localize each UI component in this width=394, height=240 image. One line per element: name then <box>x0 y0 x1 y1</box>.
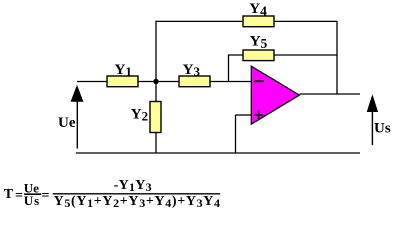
svg-text:Us: Us <box>24 193 40 208</box>
formula fraction bar Ue/Us <box>24 193 41 195</box>
formula main fraction bar <box>53 193 221 195</box>
svg-text:Y2: Y2 <box>131 107 148 124</box>
wire: output horizontal <box>300 93 361 95</box>
svg-text:Ue: Ue <box>58 115 76 131</box>
svg-text:Y5: Y5 <box>250 34 268 51</box>
svg-text:Y1: Y1 <box>115 62 132 79</box>
wire: plus input horizontal <box>236 114 252 116</box>
svg-text:Us: Us <box>374 121 391 137</box>
resistor Y2 (vertical) <box>150 102 161 133</box>
svg-text:Y4: Y4 <box>249 1 267 18</box>
svg-text:Y3: Y3 <box>183 62 201 79</box>
wire: top feedback horizontal (node to Y4 to feedback line) <box>156 20 338 22</box>
node junction dot <box>153 79 158 84</box>
resistor Y5 <box>243 50 274 61</box>
output arrow Us <box>367 94 378 112</box>
svg-text:=: = <box>42 188 50 203</box>
wire: vertical from plus input down to bottom rail <box>235 115 237 153</box>
wire: feedback vertical on right <box>336 21 338 94</box>
op-amp plus input symbol <box>254 114 263 116</box>
wire: vertical connecting Y5 branch to minus input <box>228 54 230 81</box>
op-amp minus input symbol <box>254 80 264 82</box>
svg-text:-Y1Y3: -Y1Y3 <box>114 178 152 194</box>
resistor Y4 <box>243 16 274 27</box>
resistor Y3 <box>179 76 210 87</box>
svg-text:=: = <box>15 188 23 203</box>
svg-text:T: T <box>4 187 14 202</box>
resistor Y1 <box>107 76 138 87</box>
svg-text:Y5(Y1+Y2+Y3+Y4)+Y3Y4: Y5(Y1+Y2+Y3+Y4)+Y3Y4 <box>54 194 221 210</box>
wire: bottom rail <box>76 152 360 154</box>
op-amp U1 <box>251 66 299 124</box>
formula: T = Ue/Us = -Y1Y3 / Y5(Y1+Y2+Y3+Y4)+Y3Y4 <box>4 178 221 210</box>
wire: vertical from top wire through node down to bottom wire <box>155 21 157 153</box>
input arrow Ue <box>71 85 84 102</box>
wire: main input horizontal to op-amp minus input <box>77 81 252 83</box>
wire: Y5 horizontal branch <box>229 54 338 56</box>
